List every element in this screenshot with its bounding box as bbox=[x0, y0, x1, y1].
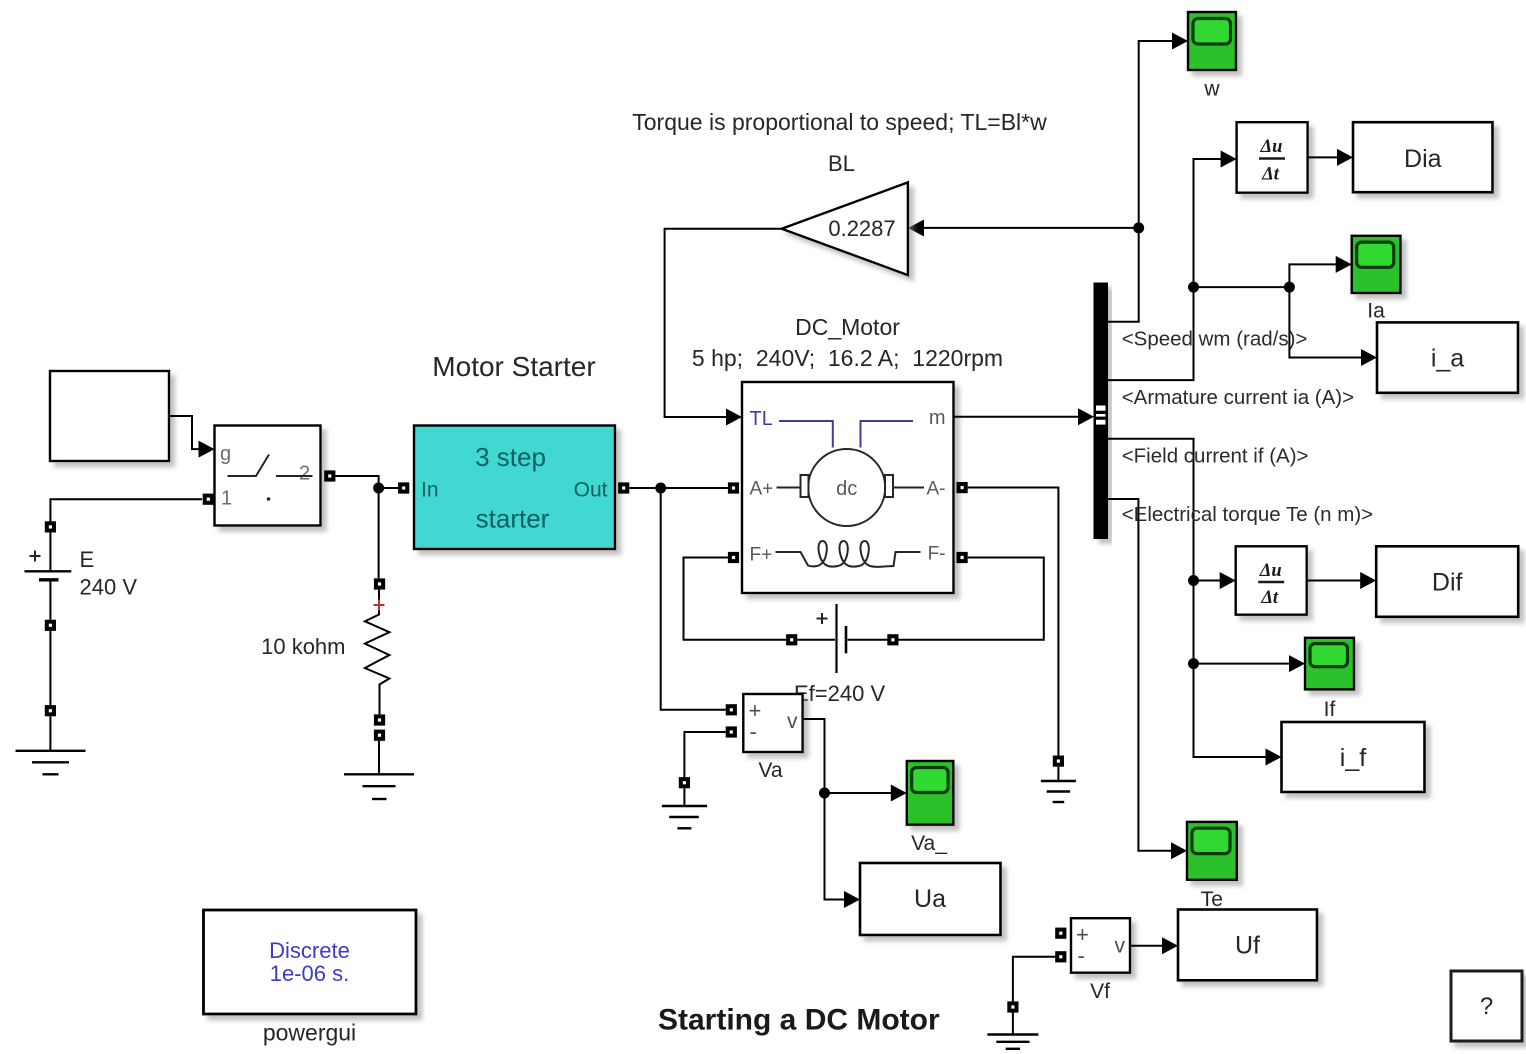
scope Te bbox=[1187, 822, 1237, 911]
svg-text:1: 1 bbox=[221, 488, 232, 510]
ground G2 bbox=[344, 741, 414, 799]
svg-text:Va: Va bbox=[758, 759, 782, 782]
motor F- port bbox=[957, 552, 968, 563]
motor F+ port bbox=[728, 552, 739, 563]
outport Uf bbox=[1178, 910, 1317, 981]
outport i_a bbox=[1377, 322, 1518, 392]
wire bus out4 torque to scope Te bbox=[1108, 499, 1188, 859]
svg-text:g: g bbox=[220, 443, 231, 465]
wire bus out2 armature current bbox=[1108, 151, 1237, 381]
DC voltage source E 240V bbox=[25, 521, 138, 631]
node E junction armature bbox=[1188, 282, 1289, 293]
wire m output to bus selector bbox=[955, 408, 1095, 425]
outport i_f bbox=[1282, 722, 1425, 792]
svg-text:Δu: Δu bbox=[1260, 137, 1283, 157]
wire gain BL to motor TL bbox=[665, 229, 782, 417]
wire node D to gain BL bbox=[908, 220, 1139, 237]
scope Ia bbox=[1352, 236, 1401, 323]
scope w bbox=[1188, 12, 1236, 101]
svg-text:DC_Motor: DC_Motor bbox=[795, 314, 900, 340]
svg-text:TL: TL bbox=[750, 408, 773, 430]
wire Step to breaker g bbox=[169, 416, 215, 458]
wire node B down to Va plus bbox=[661, 488, 726, 710]
svg-text:Uf: Uf bbox=[1235, 932, 1260, 960]
node G junction field to dudt2 bbox=[1188, 572, 1236, 589]
svg-text:F-: F- bbox=[928, 544, 946, 565]
derivative block dudt2 bbox=[1236, 546, 1307, 614]
motor A- port bbox=[957, 482, 968, 493]
wire battery E to breaker pin 1 bbox=[50, 494, 214, 522]
label DC_Motor title bbox=[692, 314, 1003, 371]
wire node B to motor A+ bbox=[661, 482, 739, 493]
outport Dia bbox=[1353, 122, 1493, 192]
ground G5 bbox=[987, 1001, 1038, 1048]
block Step timer bbox=[50, 371, 169, 461]
svg-text:i_a: i_a bbox=[1431, 345, 1464, 373]
svg-text:Discrete: Discrete bbox=[269, 938, 350, 963]
svg-text:v: v bbox=[1115, 935, 1126, 958]
svg-text:Out: Out bbox=[574, 479, 608, 502]
svg-text:10 kohm: 10 kohm bbox=[261, 634, 345, 659]
subsystem 3 step starter bbox=[414, 426, 615, 550]
svg-text:?: ? bbox=[1480, 993, 1493, 1020]
svg-text:In: In bbox=[421, 479, 439, 502]
node D junction speed to BL bbox=[1133, 222, 1144, 233]
svg-text:Te: Te bbox=[1201, 888, 1223, 911]
svg-text:<Speed wm (rad/s)>: <Speed wm (rad/s)> bbox=[1122, 328, 1308, 351]
ground G1 bbox=[16, 705, 86, 774]
voltmeter Vf bbox=[1055, 918, 1130, 1003]
node A junction bbox=[373, 483, 384, 494]
scope If bbox=[1305, 638, 1354, 721]
DC motor block U1 bbox=[742, 382, 954, 593]
wire node F to i_a bbox=[1289, 287, 1377, 366]
svg-text:Ef=240 V: Ef=240 V bbox=[794, 681, 885, 706]
node B junction bbox=[655, 483, 666, 494]
svg-text:Dia: Dia bbox=[1404, 145, 1442, 173]
powergui block bbox=[204, 910, 417, 1046]
svg-text:Torque is proportional to spee: Torque is proportional to speed; TL=Bl*w bbox=[632, 109, 1047, 135]
wire E to ground G1 bbox=[49, 631, 51, 705]
svg-text:240 V: 240 V bbox=[80, 575, 138, 600]
wire battery Ef to F- bbox=[899, 558, 1044, 640]
label BL bbox=[828, 151, 855, 176]
voltmeter Va bbox=[726, 694, 803, 782]
label signal speed bbox=[1122, 328, 1308, 351]
svg-text:5 hp; 240V; 16.2 A; 1220rpm: 5 hp; 240V; 16.2 A; 1220rpm bbox=[692, 345, 1003, 371]
svg-text:Ua: Ua bbox=[914, 885, 946, 913]
node C junction bbox=[819, 788, 830, 799]
scope Va_ bbox=[907, 761, 954, 855]
svg-text:<Field current if (A)>: <Field current if (A)> bbox=[1122, 445, 1309, 468]
annotation torque proportional bbox=[632, 109, 1047, 135]
resistor R1 10 kohm bbox=[261, 578, 389, 714]
svg-text:starter: starter bbox=[476, 504, 550, 534]
wire node A down to resistor R1 bbox=[378, 488, 380, 578]
ground G4 bbox=[1041, 756, 1076, 803]
battery Ef 240V bbox=[786, 604, 898, 706]
wire node F to scope Ia bbox=[1289, 256, 1351, 287]
wire bus out1 speed wm bbox=[1108, 33, 1189, 322]
svg-text:-: - bbox=[1078, 943, 1085, 968]
wire Vf minus to ground G5 bbox=[1013, 957, 1055, 1002]
svg-text:<Electrical torque Te (n m)>: <Electrical torque Te (n m)> bbox=[1122, 503, 1373, 526]
svg-text:Δt: Δt bbox=[1260, 588, 1279, 608]
svg-text:-: - bbox=[750, 719, 757, 744]
svg-text:powergui: powergui bbox=[263, 1020, 356, 1046]
svg-text:BL: BL bbox=[828, 151, 855, 176]
label Motor Starter bbox=[432, 351, 595, 382]
bus selector demux bbox=[1094, 283, 1108, 539]
svg-text:<Armature current ia (A)>: <Armature current ia (A)> bbox=[1122, 386, 1354, 409]
svg-text:3 step: 3 step bbox=[475, 442, 546, 472]
wire Va v output to node C bbox=[803, 719, 825, 793]
svg-text:2: 2 bbox=[299, 463, 310, 485]
wire breaker out to node A bbox=[324, 470, 378, 488]
node H junction field to scope If bbox=[1188, 655, 1305, 672]
svg-text:Δu: Δu bbox=[1259, 561, 1282, 581]
svg-text:Starting a DC Motor: Starting a DC Motor bbox=[658, 1004, 940, 1037]
label signal field current bbox=[1122, 445, 1309, 468]
svg-text:1e-06 s.: 1e-06 s. bbox=[270, 961, 350, 986]
field coil inside U1 bbox=[776, 541, 921, 567]
svg-text:If: If bbox=[1324, 698, 1336, 721]
svg-text:v: v bbox=[787, 710, 798, 733]
svg-text:Vf: Vf bbox=[1090, 980, 1110, 1003]
svg-text:w: w bbox=[1203, 78, 1220, 101]
svg-text:Dif: Dif bbox=[1432, 569, 1463, 597]
wire dudt2 to Dif bbox=[1307, 572, 1377, 589]
gain BL 0.2287 bbox=[782, 182, 908, 275]
wire node C to Ua bbox=[825, 793, 861, 908]
wire starter Out to node B bbox=[618, 482, 661, 493]
label signal armature current bbox=[1122, 386, 1354, 409]
svg-text:Motor Starter: Motor Starter bbox=[432, 351, 595, 382]
svg-text:dc: dc bbox=[836, 478, 857, 500]
ground G3 bbox=[662, 777, 707, 828]
wire Va minus to ground G3 bbox=[684, 732, 725, 777]
wire node A to starter In bbox=[379, 482, 410, 493]
wire F+ to battery Ef bbox=[684, 558, 787, 640]
wire dudt1 to Dia bbox=[1308, 149, 1353, 166]
svg-text:m: m bbox=[929, 407, 946, 429]
svg-text:Va_: Va_ bbox=[911, 832, 947, 855]
outport Dif bbox=[1376, 546, 1518, 617]
derivative block dudt1 bbox=[1237, 122, 1308, 193]
wire node C to scope Va_ bbox=[825, 785, 907, 802]
svg-text:i_f: i_f bbox=[1340, 744, 1366, 772]
wire bus out3 field current bbox=[1108, 439, 1282, 766]
node F junction armature 2 bbox=[1284, 282, 1295, 293]
svg-text:E: E bbox=[80, 547, 95, 572]
svg-text:A-: A- bbox=[927, 479, 946, 500]
label signal electrical torque bbox=[1122, 503, 1373, 526]
svg-text:0.2287: 0.2287 bbox=[828, 216, 895, 241]
label Starting a DC Motor bbox=[658, 1004, 940, 1037]
svg-text:Ia: Ia bbox=[1367, 300, 1385, 323]
outport Ua bbox=[860, 863, 1001, 935]
motor TL input arrow bbox=[726, 409, 742, 426]
svg-text:Δt: Δt bbox=[1261, 165, 1280, 185]
svg-text:A+: A+ bbox=[750, 479, 774, 500]
resistor R1 bottom port and ground G2 port bbox=[374, 714, 385, 740]
breaker switch SW1 bbox=[215, 426, 321, 526]
help block ? bbox=[1451, 971, 1522, 1041]
svg-text:F+: F+ bbox=[750, 545, 773, 566]
wire Vf v to Uf bbox=[1130, 937, 1178, 954]
wire A- to ground G4 bbox=[968, 488, 1059, 756]
